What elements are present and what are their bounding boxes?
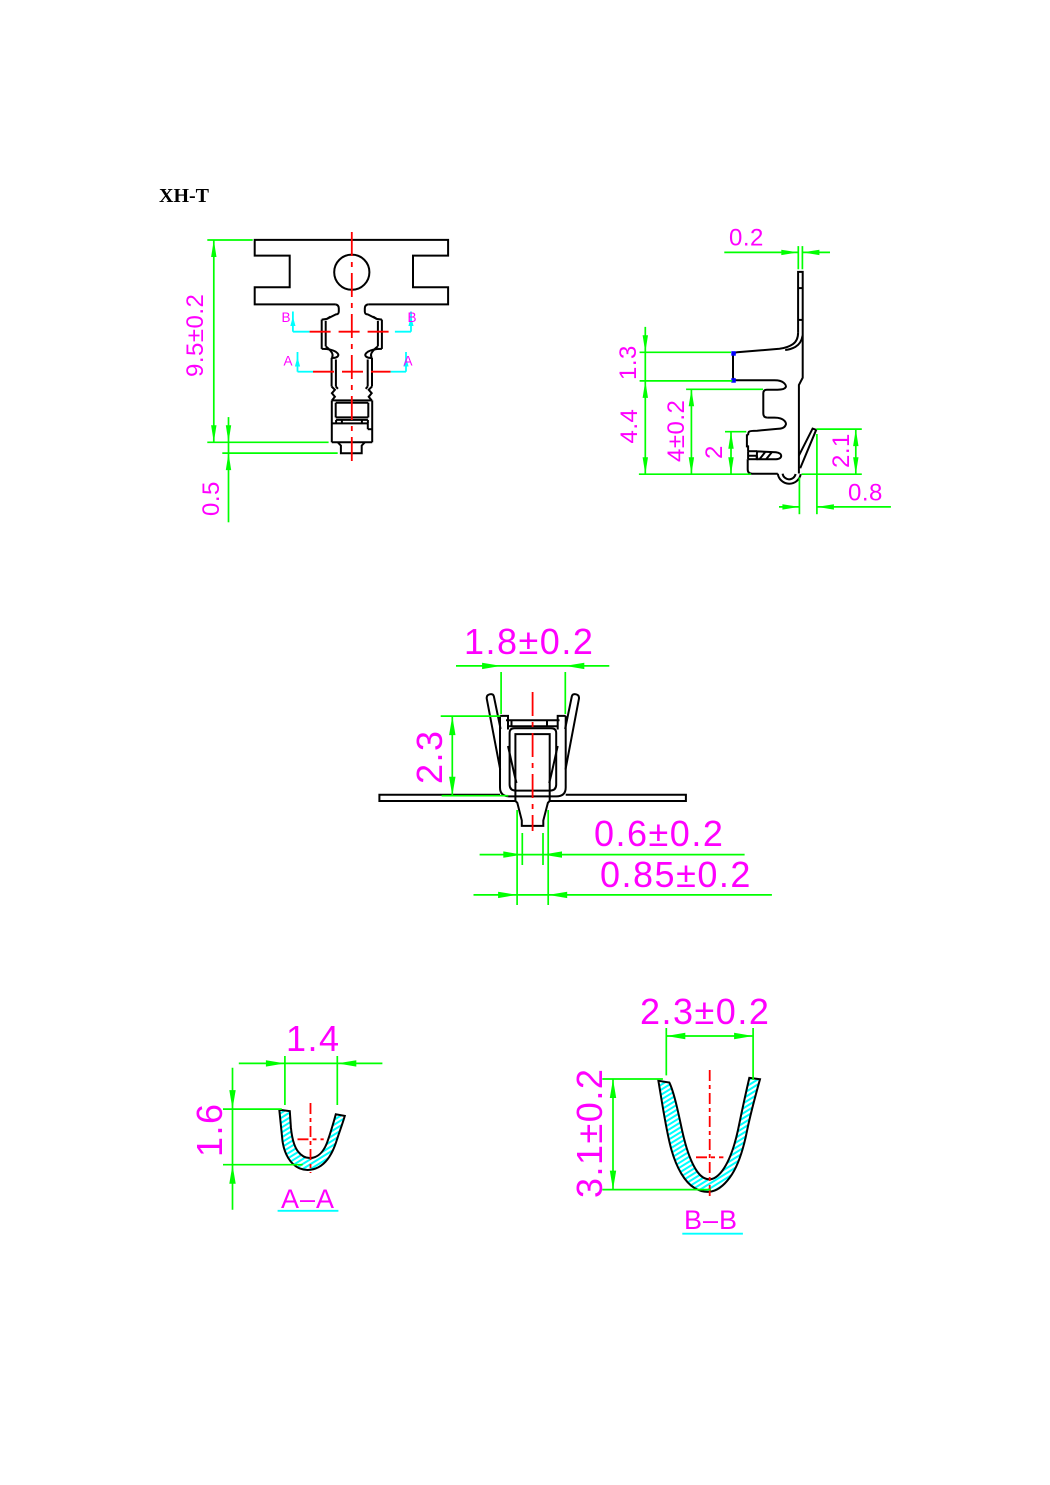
svg-text:A: A: [284, 354, 293, 369]
front view: zigzag right: [369, 387, 372, 401]
svg-text:A: A: [404, 354, 413, 369]
svg-text:1.8±0.2: 1.8±0.2: [464, 621, 594, 662]
middle view: right wing: [565, 694, 579, 769]
svg-text:B–B: B–B: [684, 1205, 738, 1235]
dimension 1.4: [284, 1056, 286, 1105]
dimension 1.6: [223, 1108, 282, 1110]
svg-text:2.3±0.2: 2.3±0.2: [640, 991, 770, 1032]
side view: lance: [799, 429, 816, 469]
middle view: wing edges seen inside: [508, 746, 517, 783]
middle view: left wing: [487, 694, 501, 769]
dimension 2.3±0.2: [665, 1028, 667, 1075]
front view: lower barrel wall right: [371, 358, 373, 387]
middle view: carrier strip edge-on: [379, 795, 516, 801]
front view: mid tabs: [336, 419, 368, 421]
dimension 2.1 (lance): [816, 428, 861, 430]
dimension 0.8: [798, 478, 800, 515]
svg-text:A–A: A–A: [281, 1184, 335, 1214]
dimension 0.5: [222, 452, 337, 454]
svg-text:0.8: 0.8: [848, 480, 883, 507]
front view: step right: [365, 349, 382, 358]
svg-text:2.1: 2.1: [828, 433, 855, 468]
section line A-A: [297, 352, 299, 372]
front view: neck flare right: [365, 304, 382, 319]
front view: neck flare left: [322, 304, 339, 319]
side view: flange bend inner: [785, 336, 802, 351]
middle view: box top flaps: [506, 719, 560, 721]
dimension 4±0.2: [686, 388, 763, 390]
svg-text:4.4: 4.4: [616, 409, 643, 444]
dimension 0.6±0.2: [521, 833, 523, 865]
front view: pilot hole: [334, 255, 369, 290]
B-B centerline cross: [709, 1070, 711, 1198]
svg-text:0.5: 0.5: [198, 481, 225, 516]
front view: upper box wall left: [321, 320, 323, 349]
dimension 1.8±0.2: [500, 672, 502, 714]
dimension 3.1±0.2: [602, 1078, 663, 1080]
front view: step left (upper to lower): [322, 349, 339, 358]
dimension 4.4: [643, 457, 648, 474]
front view: insulation crimp box: [332, 422, 368, 424]
middle view: solder pin: [515, 801, 549, 826]
middle view: inner ring: [510, 728, 557, 790]
dimension 1.3: [640, 351, 731, 353]
svg-text:B: B: [282, 310, 291, 325]
side view: crimped wire (stadium + hatch): [757, 451, 781, 459]
section line B-B: [292, 312, 294, 332]
svg-text:B: B: [408, 310, 417, 325]
middle view: box outer: [500, 716, 508, 730]
svg-text:1.6: 1.6: [189, 1102, 230, 1157]
side view: bottom hook inner: [783, 474, 796, 480]
front view: vertical centerline (red): [351, 232, 353, 464]
dimension 0.85±0.2: [516, 810, 518, 905]
side view: bottom hook outer: [778, 474, 801, 484]
svg-text:0.6±0.2: 0.6±0.2: [594, 813, 724, 854]
svg-text:0.2: 0.2: [729, 225, 764, 252]
middle view: cavity: [515, 734, 549, 801]
side view: main outline: [798, 272, 803, 474]
middle view: centerline: [532, 692, 534, 831]
front view: upper box wall right: [381, 320, 383, 349]
svg-text:9.5±0.2: 9.5±0.2: [182, 294, 209, 377]
dimension 2.3: [441, 715, 501, 717]
front view: end tab: [338, 442, 365, 453]
svg-text:2: 2: [701, 445, 728, 459]
svg-text:2.3: 2.3: [409, 729, 450, 784]
front view: zigzag left: [332, 387, 335, 401]
dimension 2: [725, 431, 746, 433]
side view: flange bend outer: [733, 333, 798, 381]
front view: wire crimp box: [332, 399, 372, 401]
side view: top finger and notch 1: [737, 380, 786, 417]
svg-text:3.1±0.2: 3.1±0.2: [569, 1068, 610, 1198]
dimension 0.2 (blade thickness): [797, 246, 799, 269]
side view: blue reference marks: [731, 351, 736, 356]
dimension 9.5±0.2: [207, 239, 252, 241]
front view: carrier strip outline: [255, 240, 448, 305]
front view: lower barrel wall left: [331, 358, 333, 387]
side view: blade bend ticks: [798, 287, 803, 289]
svg-text:1.3: 1.3: [615, 345, 642, 380]
side view: wire crimp finger and notch 2: [748, 418, 786, 436]
A-A centerline cross: [310, 1103, 312, 1173]
svg-text:XH-T: XH-T: [159, 185, 210, 207]
side view: insulation finger left edge with bump: [747, 435, 748, 451]
side view: wire slot lines: [748, 450, 757, 452]
svg-text:4±0.2: 4±0.2: [663, 400, 690, 462]
svg-text:0.85±0.2: 0.85±0.2: [600, 854, 752, 895]
baseline extension: [639, 473, 751, 475]
svg-text:1.4: 1.4: [286, 1018, 341, 1059]
